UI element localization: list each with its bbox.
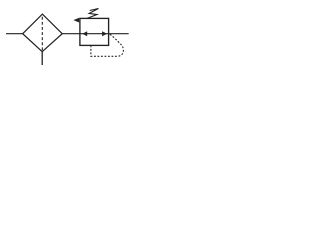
filter F1 (diamond body) bbox=[23, 14, 63, 52]
filter element (dashed vertical) bbox=[41, 17, 43, 51]
spring (regulator setting spring) bbox=[87, 9, 99, 19]
regulator body R1 (box) bbox=[80, 18, 109, 45]
flow arrowhead left bbox=[82, 31, 87, 36]
wire inlet bbox=[6, 33, 23, 35]
flow path line inside regulator bbox=[80, 33, 109, 35]
relief vent arrowhead bbox=[73, 18, 79, 23]
pilot line (dashed feedback loop) bbox=[91, 34, 124, 56]
wire filter to regulator bbox=[62, 33, 80, 35]
flow arrowhead right bbox=[102, 31, 107, 36]
drain line bbox=[41, 52, 43, 65]
wire outlet bbox=[109, 33, 129, 35]
